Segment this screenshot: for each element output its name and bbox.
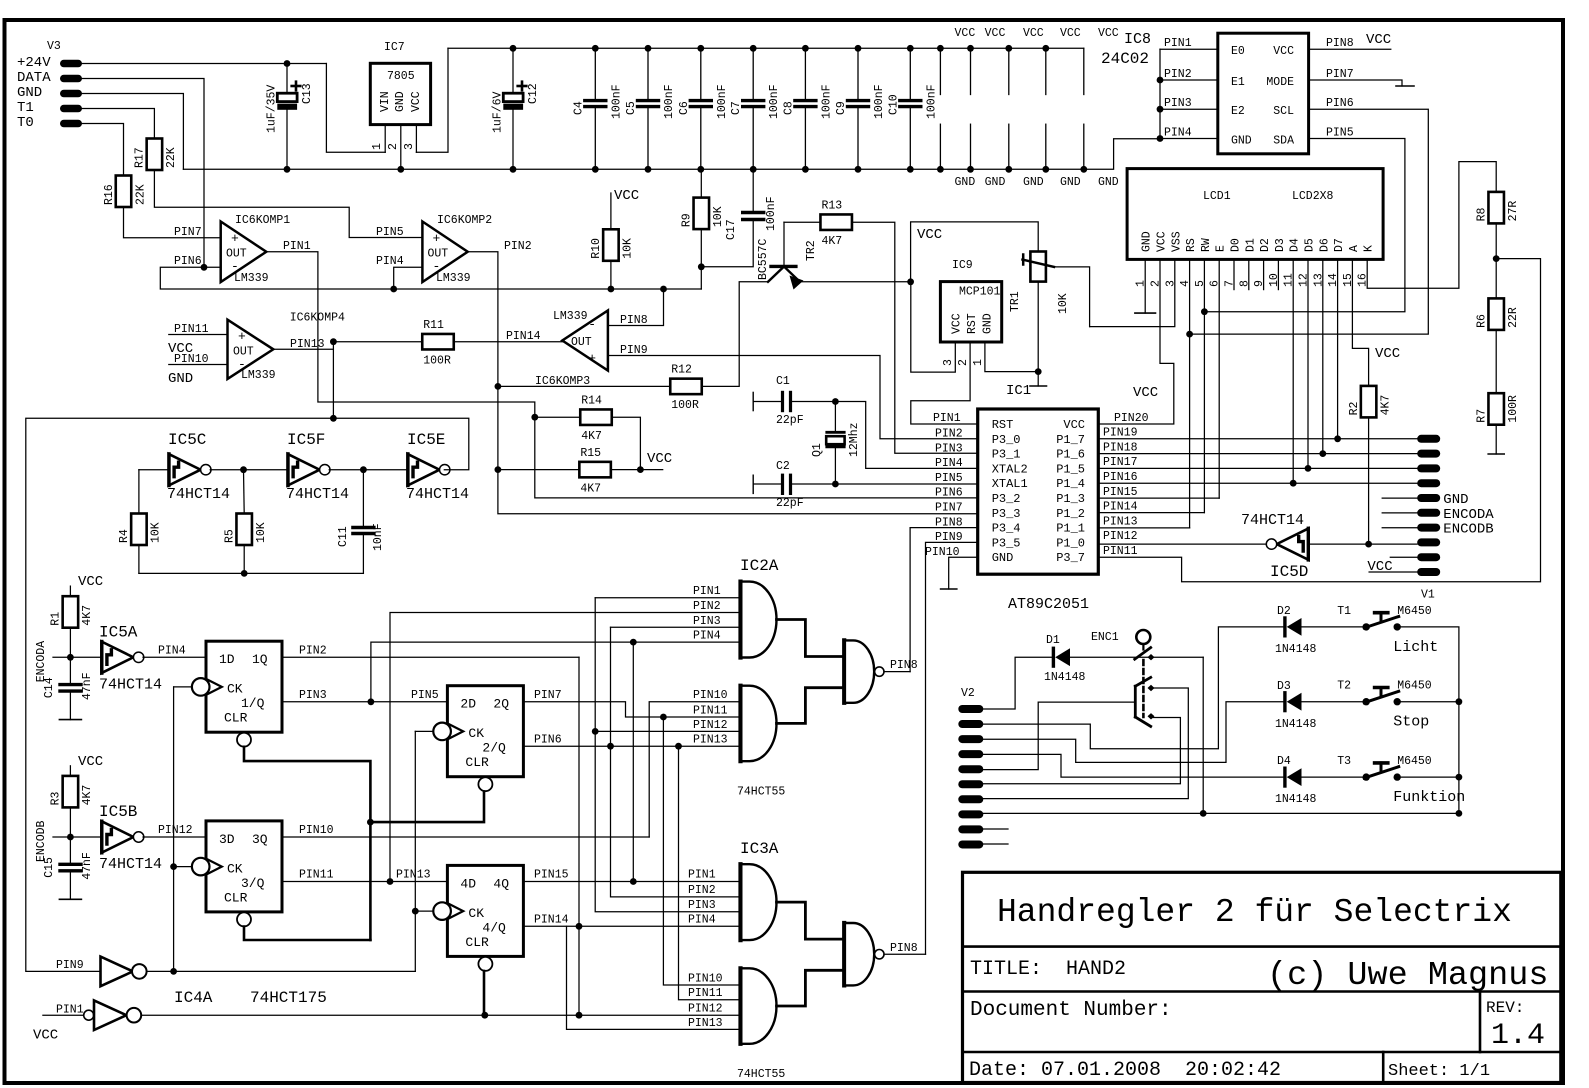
svg-text:GND: GND [394,91,407,112]
svg-text:IC2A: IC2A [740,557,779,575]
svg-text:VCC: VCC [410,91,423,112]
wire comparator1 output PIN1 [266,252,977,498]
IC8 right pin wires [1309,48,1391,50]
svg-text:PIN10: PIN10 [174,353,209,366]
resistor R17 [147,139,163,171]
diode D3 1N4148 [1283,693,1286,711]
vertical to AND4 pin11 [679,746,739,1000]
IC2A internal connections [777,620,845,657]
svg-text:PIN7: PIN7 [935,502,963,515]
VCC stub 2 [970,48,972,94]
svg-text:GND: GND [992,551,1014,565]
ground below R7 [1495,425,1497,454]
svg-text:OUT: OUT [571,336,592,349]
svg-text:P1_1: P1_1 [1056,522,1085,536]
CLR net FF1-FF2 [244,747,370,822]
svg-text:PIN6: PIN6 [1326,97,1354,110]
LCD pins7-10 stubs [1233,259,1235,289]
svg-text:PIN11: PIN11 [693,705,728,718]
IC3A NAND [842,923,846,985]
wire V2 pad1 to D1 [983,657,1052,709]
svg-text:R13: R13 [821,199,842,212]
svg-text:C12: C12 [527,83,540,104]
wire R6-R7 [1495,330,1497,393]
IC4A PIN9 inverter output to CK nets [147,970,416,972]
IC3A AND upper [738,864,742,940]
svg-text:VCC: VCC [1367,559,1392,575]
wire FF4 4Q PIN15 to AND3 pin1 [524,881,739,883]
inverter PIN1 with input bubble [84,1010,94,1020]
resistor R11 [422,334,454,350]
svg-text:R17: R17 [134,147,147,168]
svg-text:GND: GND [1141,231,1154,252]
svg-text:74HCT14: 74HCT14 [167,486,230,503]
LCD pin12 D5 [1307,259,1309,468]
svg-text:P3_2: P3_2 [992,492,1021,506]
svg-text:2Q: 2Q [493,697,509,712]
svg-text:CLR: CLR [465,755,489,770]
resistor R7 [1488,393,1504,425]
svg-text:100nF: 100nF [765,196,778,231]
svg-text:IC5E: IC5E [407,431,445,449]
svg-text:PIN19: PIN19 [1103,427,1138,440]
svg-text:XTAL1: XTAL1 [992,477,1028,491]
svg-text:R12: R12 [671,364,692,377]
svg-text:CK: CK [227,861,243,876]
svg-text:4D: 4D [460,876,476,891]
svg-text:AT89C2051: AT89C2051 [1008,596,1089,613]
wire ENCODA input [53,656,100,658]
inverter IC5C 74HCT14 [169,454,201,486]
voltage regulator IC7 7805 [370,63,430,124]
svg-text:(c) Uwe Magnus: (c) Uwe Magnus [1267,957,1548,995]
svg-text:C4: C4 [572,101,585,115]
svg-text:CLR: CLR [224,711,248,726]
wire +24V [82,63,326,65]
svg-text:2: 2 [957,359,970,366]
svg-text:R2: R2 [1348,401,1361,415]
svg-text:VIN: VIN [379,91,392,112]
capacitor C7 [752,48,754,99]
wire D1 to encoder and down [1070,656,1203,658]
diode D4 1N4148 [1283,768,1286,786]
svg-text:PIN3: PIN3 [299,689,327,702]
capacitor C10 [909,48,911,99]
wire AT89 PIN10 GND [949,557,978,589]
wire V2 pad2 to D2 [983,627,1285,749]
svg-text:C14: C14 [43,677,56,698]
svg-text:4K7: 4K7 [821,235,842,248]
svg-text:4K7: 4K7 [81,785,94,806]
svg-text:P3_7: P3_7 [1056,551,1085,565]
wire comparator2 minus [394,267,423,289]
svg-text:C7: C7 [730,101,743,115]
svg-text:3: 3 [403,143,416,150]
svg-text:2/Q: 2/Q [482,741,506,756]
svg-text:74HCT55: 74HCT55 [737,1068,785,1081]
svg-text:PIN1: PIN1 [1164,37,1192,50]
svg-text:100R: 100R [1507,395,1520,423]
capacitor C9 [857,48,859,99]
capacitor C6 [700,48,702,99]
svg-text:PIN12: PIN12 [158,824,193,837]
resistor R12 [670,379,702,395]
svg-text:VCC: VCC [1098,27,1119,40]
wire T0 [82,124,124,176]
resistor R13 [820,214,852,230]
vertical to AND1 pin2 [390,613,738,882]
encoder bracket [1134,686,1137,717]
svg-text:TITLE: HAND2: TITLE: HAND2 [970,958,1126,981]
switch T3 M6450 Funktion [1363,773,1370,780]
svg-text:R3: R3 [50,791,63,805]
svg-text:C15: C15 [43,857,56,878]
svg-text:VCC: VCC [955,27,976,40]
svg-text:100nF: 100nF [716,84,729,119]
svg-text:P1_7: P1_7 [1056,433,1085,447]
GND rail bottom [183,139,1160,170]
svg-text:DATA: DATA [17,70,51,86]
resistor R2 [1361,386,1377,418]
LCD pin4 RS [1189,259,1191,528]
svg-text:100nF: 100nF [768,84,781,119]
svg-text:CK: CK [468,726,484,741]
wire AT89 PIN8 to gate IC2A output [910,528,978,672]
svg-text:4K7: 4K7 [581,430,602,443]
svg-text:C11: C11 [337,526,350,547]
svg-text:VCC: VCC [33,1028,58,1044]
microcontroller AT89C2051 [978,409,1099,574]
wire C2 to XTAL1 [835,483,977,485]
wire FF3 3Q PIN10 to AND2 pin10 [282,836,649,838]
svg-text:PIN12: PIN12 [693,719,728,732]
LCD pin6 E [1218,259,1220,498]
IC8 left pin wires [1160,48,1218,50]
wire IC5F out to IC5E in [329,469,406,471]
svg-text:IC7: IC7 [384,41,405,54]
svg-text:2: 2 [387,143,400,150]
svg-text:LM339: LM339 [436,272,471,285]
vertical AND1 pin3 to AND3 pin2 [611,626,739,628]
svg-text:R4: R4 [118,529,131,543]
capacitor C4 [594,48,596,99]
svg-text:24C02: 24C02 [1101,50,1149,68]
LCD pin1 GND [1144,259,1146,313]
svg-text:V3: V3 [47,40,61,53]
svg-text:RS: RS [1185,238,1198,252]
svg-text:PIN6: PIN6 [534,734,562,747]
svg-text:PIN13: PIN13 [1103,515,1138,528]
svg-text:1uF/6V: 1uF/6V [492,91,505,133]
V1 pad10 VCC stub [1369,571,1417,573]
VCC node to IC9/TR1 [911,222,1039,282]
flip-flop 3D3Q [206,821,282,912]
svg-text:PIN18: PIN18 [1103,441,1138,454]
svg-text:PIN5: PIN5 [1326,127,1354,140]
svg-text:1N4148: 1N4148 [1275,643,1317,656]
wire IC5E out feedback [26,418,469,971]
V1 pad9 stub [1390,556,1417,558]
IC3A internal connections [777,902,845,939]
svg-text:2D: 2D [460,697,476,712]
display LCD1 LCD2X8 [1127,169,1383,260]
svg-text:IC8: IC8 [1124,31,1151,48]
capacitor C5 [647,48,649,99]
svg-text:12Mhz: 12Mhz [848,422,861,457]
svg-text:R11: R11 [423,319,444,332]
svg-text:3D: 3D [219,832,235,847]
wire P1_6 row to V1 pad2 [1098,453,1417,455]
svg-text:REV:: REV: [1486,999,1524,1017]
svg-text:GND: GND [985,176,1006,189]
svg-text:100R: 100R [423,354,451,367]
svg-text:+: + [433,231,441,246]
svg-text:GND: GND [982,313,995,334]
wire comparator1 minus loop [160,267,701,289]
svg-text:CK: CK [468,906,484,921]
svg-text:VCC: VCC [951,313,964,334]
svg-text:PIN1: PIN1 [693,585,721,598]
svg-text:CLR: CLR [224,890,248,905]
V1 pad5 GND stub [1382,497,1417,499]
svg-text:PIN11: PIN11 [299,869,334,882]
vertical to FF4 4Q row [632,642,634,881]
svg-text:74HCT175: 74HCT175 [250,989,327,1007]
CLR net FF3 [244,927,370,941]
wire P1_7 row to V1 pad1 [1098,438,1417,440]
svg-text:PIN10: PIN10 [688,973,723,986]
svg-text:LCD1: LCD1 [1203,190,1231,203]
diode D1 1N4148 [1052,648,1055,666]
svg-text:PIN10: PIN10 [299,824,334,837]
svg-text:Q1: Q1 [811,443,824,457]
wire AND1 pin4 row [371,642,738,702]
svg-text:TR1: TR1 [1009,291,1022,312]
svg-text:IC5F: IC5F [287,431,325,449]
svg-text:IC9: IC9 [952,259,973,272]
svg-text:M6450: M6450 [1397,605,1432,618]
svg-text:PIN14: PIN14 [1103,501,1138,514]
svg-text:PIN8: PIN8 [890,942,918,955]
svg-text:R5: R5 [223,529,236,543]
V1 pad6 ENCODA stub [1382,512,1417,514]
wire DATA [82,79,204,268]
svg-text:VCC: VCC [1133,385,1158,401]
svg-text:P3_1: P3_1 [992,448,1021,462]
oscillator bottom rail [139,572,364,574]
transistor TR2 BC557C [771,265,796,268]
svg-text:VSS: VSS [1170,231,1183,252]
svg-text:IC5A: IC5A [99,623,138,641]
svg-text:PIN6: PIN6 [935,487,963,500]
svg-text:PIN4: PIN4 [935,457,963,470]
LCD pin15 A to R2 [1352,259,1368,386]
crystal Q1 12Mhz [827,431,844,434]
svg-text:VCC: VCC [917,227,942,243]
comparator IC6KOMP1 LM339 [221,222,267,283]
flip-flop 2D2Q [447,686,523,777]
svg-text:PIN2: PIN2 [299,645,327,658]
svg-text:BC557C: BC557C [757,238,770,280]
svg-text:D5: D5 [1304,238,1317,252]
wire FF4 4/Q PIN14 to AND3 pin4 row [524,925,739,927]
svg-text:PIN1: PIN1 [283,240,311,253]
LCD pin16 K to R8 net [1367,162,1496,289]
svg-text:PIN9: PIN9 [620,344,648,357]
GND stub 1 [939,124,941,169]
svg-text:VCC: VCC [1156,231,1169,252]
flip-flop 4D4Q [447,865,523,956]
svg-text:MODE: MODE [1266,76,1294,89]
svg-text:PIN2: PIN2 [1164,68,1192,81]
VCC stub 4 [1045,48,1047,94]
svg-text:PIN15: PIN15 [1103,486,1138,499]
svg-text:10K: 10K [622,238,635,259]
wire IC5B out to FF3 3D [143,836,206,838]
svg-text:PIN13: PIN13 [688,1017,723,1030]
wire comparator4 output PIN13 [273,348,333,350]
diode D2 1N4148 [1283,618,1286,636]
svg-text:22K: 22K [165,147,178,168]
capacitor C14 [69,657,71,683]
IC9 pin2 RST to AT89 RST [911,342,978,424]
trimmer TR1 10K [1030,252,1046,282]
svg-text:+24V: +24V [17,55,51,71]
IC2A AND lower [738,686,742,762]
svg-text:22R: 22R [1507,307,1520,328]
svg-text:10nF: 10nF [372,523,385,551]
svg-text:VCC: VCC [1273,45,1294,58]
svg-text:ENCODA: ENCODA [1443,507,1494,523]
svg-text:XTAL2: XTAL2 [992,462,1028,476]
svg-text:PIN6: PIN6 [174,255,202,268]
svg-text:R9: R9 [681,213,694,227]
svg-text:100nF: 100nF [663,84,676,119]
svg-text:+: + [238,329,246,344]
wire IC5C out to IC5F in [210,469,286,471]
svg-text:GND: GND [17,85,42,101]
svg-text:R10: R10 [590,238,603,259]
svg-text:VCC: VCC [1366,32,1391,48]
svg-text:74HCT14: 74HCT14 [99,856,162,873]
LCD pin2 VCC to AT89 PIN20 [1098,259,1174,424]
svg-text:PIN11: PIN11 [1103,545,1138,558]
svg-text:PIN1: PIN1 [933,412,961,425]
svg-text:1uF/35V: 1uF/35V [266,85,279,133]
svg-text:4K7: 4K7 [1379,395,1392,416]
svg-text:Sheet: 1/1: Sheet: 1/1 [1388,1062,1490,1081]
svg-text:VCC: VCC [1375,346,1400,362]
svg-text:M6450: M6450 [1397,680,1432,693]
svg-text:IC5B: IC5B [99,803,137,821]
svg-text:P3_5: P3_5 [992,536,1021,550]
svg-text:P1_0: P1_0 [1056,536,1085,550]
comparator IC6KOMP3 LM339 flipped [562,310,608,370]
svg-text:R15: R15 [580,447,601,460]
svg-text:VCC: VCC [1060,27,1081,40]
svg-text:SDA: SDA [1273,135,1294,148]
svg-text:VCC: VCC [647,451,672,467]
svg-text:PIN3: PIN3 [688,899,716,912]
capacitor C11 [362,470,364,526]
svg-text:RST: RST [966,313,979,334]
capacitor C17 [752,169,754,211]
svg-text:P3_4: P3_4 [992,522,1021,536]
svg-text:+: + [588,351,596,366]
inverter IC5E 74HCT14 [408,454,440,486]
svg-text:PIN7: PIN7 [534,689,562,702]
gate IC2A output PIN8 [884,671,910,673]
svg-text:E: E [1215,245,1228,252]
wire encoder mid contact to V2 pad7 [983,688,1188,799]
svg-text:100R: 100R [671,399,699,412]
svg-text:PIN4: PIN4 [693,630,721,643]
TR2 collector wire to R12 [702,282,768,387]
wire FF2 2Q PIN7 to AND2 pin11 [524,702,739,717]
svg-text:VCC: VCC [78,574,103,590]
gate IC3A output PIN8 [884,953,926,955]
svg-text:VCC: VCC [1063,418,1085,432]
svg-text:PIN1: PIN1 [688,869,716,882]
switch T2 M6450 Stop [1363,698,1370,705]
IC2A AND upper [738,582,742,658]
svg-text:PIN15: PIN15 [534,869,569,882]
svg-text:PIN8: PIN8 [1326,37,1354,50]
svg-text:SCL: SCL [1273,105,1294,118]
svg-text:T0: T0 [17,115,34,131]
svg-text:1Q: 1Q [252,652,268,667]
svg-text:LCD2X8: LCD2X8 [1292,190,1334,203]
svg-text:C9: C9 [835,101,848,115]
wire GND [82,94,183,170]
LCD pin3 VSS to trimmer [1090,259,1175,326]
svg-text:D2: D2 [1277,605,1291,618]
svg-text:LM339: LM339 [234,272,269,285]
wire P1_4 row to V1 pad4 [1098,482,1417,484]
svg-text:PIN2: PIN2 [504,240,532,253]
IC3A AND lower [738,968,742,1044]
svg-text:3/Q: 3/Q [241,876,265,891]
svg-text:GND: GND [168,371,193,387]
capacitor C15 [69,837,71,863]
svg-text:PIN14: PIN14 [534,914,569,927]
VCC rail top [448,47,1084,49]
svg-text:PIN16: PIN16 [1103,471,1138,484]
svg-text:D2: D2 [1259,238,1272,252]
svg-text:T1: T1 [17,100,34,116]
svg-text:R6: R6 [1475,314,1488,328]
svg-text:D1: D1 [1244,238,1257,252]
svg-text:4/Q: 4/Q [482,920,506,935]
svg-text:4K7: 4K7 [580,482,601,495]
svg-text:C17: C17 [725,219,738,240]
svg-text:22pF: 22pF [776,414,804,427]
wire FF1 1/Q PIN3 to FF2 2D PIN5 [282,701,447,703]
svg-text:PIN13: PIN13 [693,734,728,747]
svg-text:1: 1 [371,143,384,150]
svg-text:PIN2: PIN2 [693,600,721,613]
svg-text:V1: V1 [1421,589,1435,602]
svg-text:1N4148: 1N4148 [1044,671,1086,684]
svg-text:R1: R1 [50,612,63,626]
comparator IC6KOMP4 LM339 [228,320,274,379]
svg-text:RST: RST [992,418,1014,432]
wire R16 to comparator1 [124,207,221,238]
svg-text:74HCT55: 74HCT55 [737,786,785,799]
svg-text:PIN5: PIN5 [411,689,439,702]
svg-text:D6: D6 [1318,238,1331,252]
svg-text:4K7: 4K7 [81,605,94,626]
